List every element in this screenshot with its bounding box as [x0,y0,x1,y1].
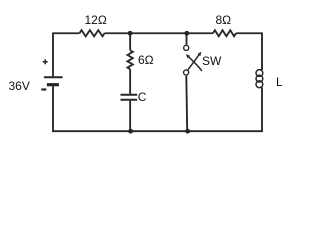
svg-text:36V: 36V [9,79,30,93]
svg-text:L: L [276,75,283,89]
svg-text:C: C [138,90,147,104]
svg-text:SW: SW [202,54,222,68]
svg-text:12Ω: 12Ω [85,13,107,27]
svg-text:8Ω: 8Ω [216,13,232,27]
svg-text:6Ω: 6Ω [138,53,154,67]
